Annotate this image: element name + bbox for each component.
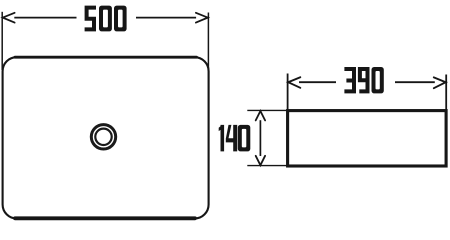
drain inner circle: [95, 129, 111, 145]
side view rectangle: [288, 111, 447, 166]
dim 390: right extension line: [445, 75, 447, 111]
dim 500: right extension line: [207, 13, 209, 71]
basin top view outline: [3, 57, 209, 218]
dim 140: bottom extension line: [247, 165, 287, 167]
dim 140: bottom arrow: [256, 156, 265, 165]
dim 390: line left segment: [299, 81, 336, 83]
basin top edge (thicker): [15, 56, 197, 59]
dim 500: left arrow: [3, 13, 15, 23]
dim 390: right arrow: [434, 77, 446, 88]
digits 500: [85, 6, 96, 32]
dim 390: left arrow: [288, 77, 300, 88]
dim 140: vertical line: [259, 120, 261, 156]
basin bottom edge (thicker): [15, 216, 195, 220]
dim 500: line left segment: [14, 17, 76, 19]
dim 140: top arrow: [256, 111, 265, 120]
dim 140: top extension line: [247, 109, 287, 111]
dim 390: line right segment: [395, 81, 435, 83]
digits 390: [344, 67, 356, 93]
digits 140: [219, 125, 224, 151]
dim 500: line right segment: [136, 17, 196, 19]
dim 500: right arrow: [196, 13, 208, 23]
dim 390: left extension line: [287, 74, 289, 111]
drain outer circle: [91, 125, 115, 149]
dim 500: left extension line: [1, 12, 3, 70]
